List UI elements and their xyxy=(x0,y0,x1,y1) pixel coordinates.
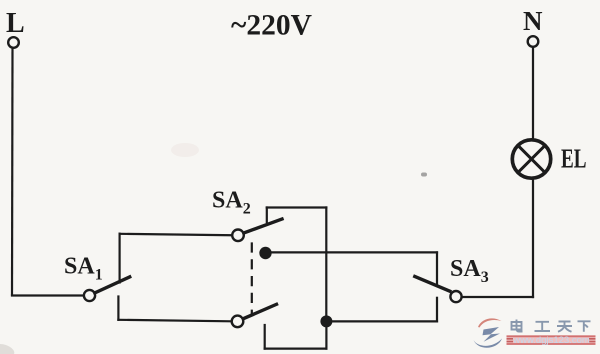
wire: L vertical down xyxy=(11,48,14,294)
node: SA2 lower contact dot xyxy=(259,247,271,259)
faint smudge bottom-left corner xyxy=(0,344,14,354)
char 工 xyxy=(535,322,551,331)
faint smudge center-left xyxy=(171,143,199,157)
wire: SA2 bottom U horizontal xyxy=(265,348,327,350)
lamp EL cross xyxy=(518,146,545,173)
SA3 upper contact stub xyxy=(436,252,438,286)
SA1 lower contact stub xyxy=(117,297,119,320)
char 天 xyxy=(557,322,572,332)
wire: middle wire dot to SA3 upper stub xyxy=(266,251,438,253)
char 下 xyxy=(578,321,591,332)
char 电 xyxy=(512,320,523,332)
switch SA2 top pivot xyxy=(232,230,244,242)
SA2 top upper contact stub xyxy=(266,208,268,223)
svg-text:N: N xyxy=(523,6,543,36)
lamp EL circle xyxy=(512,140,550,178)
wire: SA3 common to lamp branch xyxy=(463,296,534,298)
switch SA2 bottom pivot xyxy=(232,316,244,328)
terminal N xyxy=(528,36,539,47)
wire: N vertical down to lamp xyxy=(532,47,534,139)
watermark text 电工天下 (vector strokes) xyxy=(512,320,591,332)
SA3 lower contact stub xyxy=(436,298,438,322)
switch SA3 pivot xyxy=(450,291,461,302)
wire: SA2 bottom U vertical up to junction xyxy=(325,321,327,348)
watermark logo swirl xyxy=(474,318,503,347)
SA1 upper contact stub xyxy=(118,234,120,283)
terminal L xyxy=(8,37,19,48)
wire: SA2 top bracket horizontal xyxy=(267,206,327,208)
SA2 mechanical link (dashed) xyxy=(251,244,253,314)
SA2 bottom contact stub xyxy=(264,325,266,349)
wire: lamp down xyxy=(532,179,534,298)
switch SA2 top lever xyxy=(244,219,282,233)
svg-text:~220V: ~220V xyxy=(231,10,312,42)
switch SA3 lever xyxy=(415,277,450,292)
watermark banner xyxy=(507,335,596,346)
stray speck xyxy=(421,173,427,177)
svg-text:EL: EL xyxy=(561,144,587,174)
switch SA1 pivot xyxy=(84,290,95,301)
switch SA1 lever xyxy=(95,277,130,293)
wire: SA2 cross vertical down to junction xyxy=(325,208,327,322)
wire: L to SA1 common xyxy=(12,294,84,296)
wire: bottom branch SA1 to SA2 xyxy=(118,320,231,322)
switch SA2 bottom lever xyxy=(244,304,277,318)
wire: bottom branch junction to SA3 xyxy=(326,320,437,322)
svg-text:www.dgjs123.com: www.dgjs123.com xyxy=(512,335,590,346)
svg-text:L: L xyxy=(6,8,25,39)
wire: top branch SA1 to SA2 xyxy=(120,234,232,235)
node: junction dot right xyxy=(320,315,332,327)
